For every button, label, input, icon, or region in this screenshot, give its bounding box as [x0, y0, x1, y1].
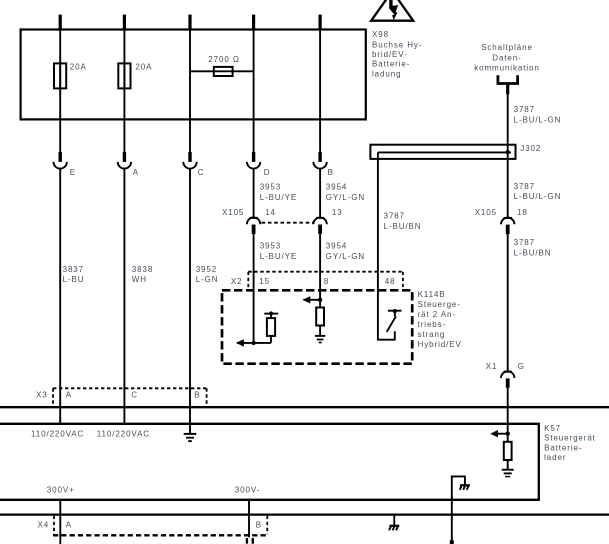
- X105 dashed connector link: [262, 222, 314, 224]
- svg-text:Batterie-: Batterie-: [544, 443, 582, 452]
- connector X98 pin A: [118, 152, 139, 177]
- svg-text:triebs-: triebs-: [418, 320, 447, 329]
- wire 3838 WH: [123, 169, 125, 424]
- wire 3787 L-BU/L-GN (upper right): [507, 94, 509, 145]
- wire D inside box: [253, 30, 255, 152]
- svg-text:8: 8: [324, 277, 329, 286]
- svg-text:110/220VAC: 110/220VAC: [31, 429, 84, 438]
- svg-text:3787: 3787: [514, 182, 535, 191]
- svg-text:Buchse Hy-: Buchse Hy-: [372, 40, 422, 49]
- warning triangle (high voltage, apex cut off at top): [371, 0, 413, 21]
- svg-text:L-GN: L-GN: [196, 275, 219, 284]
- terminal tick pin B top: [319, 15, 322, 30]
- wire 3952 L-GN: [189, 169, 191, 433]
- wire 300V+: [59, 500, 61, 544]
- svg-text:brid/EV-: brid/EV-: [372, 50, 408, 59]
- svg-text:X4: X4: [38, 521, 50, 530]
- svg-text:3954: 3954: [326, 242, 347, 251]
- svg-text:Hybrid/EV: Hybrid/EV: [418, 340, 462, 349]
- box X98 (charging socket): [21, 30, 366, 120]
- svg-text:B: B: [256, 521, 262, 530]
- ground (wire 3952 below bus): [184, 434, 197, 441]
- connector X98 pin D: [247, 152, 271, 177]
- label X98 Buchse Hybrid/EV-Batterieladung: [372, 30, 422, 78]
- svg-text:48: 48: [385, 277, 396, 286]
- bus line (top of charger area): [0, 406, 609, 408]
- svg-text:110/220VAC: 110/220VAC: [97, 429, 150, 438]
- ground (K114B pin 8): [315, 336, 325, 343]
- svg-text:K114B: K114B: [418, 290, 446, 299]
- svg-text:L-BU/YE: L-BU/YE: [260, 193, 297, 202]
- fuse 20A (wire E): [54, 63, 66, 88]
- terminal tick pin C top: [188, 15, 191, 30]
- svg-text:L-BU/BN: L-BU/BN: [514, 249, 552, 258]
- control unit K57 box: [0, 423, 539, 501]
- svg-text:A: A: [133, 168, 139, 177]
- connector X98 pin E: [54, 152, 77, 177]
- svg-text:rät 2 An-: rät 2 An-: [418, 310, 456, 319]
- fuse 20A (wire A): [118, 63, 130, 88]
- svg-text:18: 18: [517, 208, 528, 217]
- svg-text:3787: 3787: [514, 105, 535, 114]
- svg-text:X105: X105: [222, 208, 244, 217]
- connector X105 pin 13: [313, 208, 342, 234]
- svg-text:L-BU/YE: L-BU/YE: [260, 252, 297, 261]
- svg-text:B: B: [194, 391, 200, 400]
- terminal tick pin E top: [59, 15, 62, 30]
- wire 300V-: [248, 500, 250, 538]
- wire 3954 GY/L-GN (lower): [319, 234, 321, 308]
- svg-text:B: B: [328, 168, 334, 177]
- svg-text:20A: 20A: [135, 62, 152, 71]
- svg-text:J302: J302: [520, 144, 541, 153]
- svg-text:lader: lader: [544, 453, 566, 462]
- connector X1 pin G: [501, 371, 514, 388]
- wire 3787 L-BU/BN (X105 to X1): [507, 234, 509, 371]
- terminal tick pin A top: [123, 15, 126, 30]
- wire 3953 L-BU/YE (lower): [253, 234, 255, 343]
- svg-text:3953: 3953: [260, 183, 281, 192]
- svg-text:14: 14: [265, 208, 276, 217]
- svg-text:strang: strang: [418, 330, 446, 339]
- wire A inside box: [123, 30, 125, 152]
- K114B pin 8 branch: arrow, resistor R, ground: [303, 296, 325, 336]
- dashed box edge below X4: [53, 535, 267, 543]
- svg-text:L-BU/L-GN: L-BU/L-GN: [514, 192, 562, 201]
- svg-text:kommunikation: kommunikation: [474, 64, 540, 73]
- svg-text:3952: 3952: [196, 265, 217, 274]
- svg-text:C: C: [198, 168, 205, 177]
- svg-text:2700 Ω: 2700 Ω: [208, 55, 239, 64]
- svg-text:Steuerge-: Steuerge-: [418, 300, 461, 309]
- svg-text:X105: X105: [475, 208, 497, 217]
- svg-text:Schaltpläne: Schaltpläne: [481, 43, 533, 52]
- svg-text:G: G: [518, 362, 525, 371]
- svg-text:3837: 3837: [63, 265, 84, 274]
- wire 3787 L-BU/L-GN (J302 to X105 pin 18): [507, 145, 509, 218]
- wire B inside box: [319, 30, 321, 152]
- svg-text:15: 15: [259, 277, 270, 286]
- callout Schaltplaene Datenkommunikation: [474, 43, 540, 94]
- svg-text:GY/L-GN: GY/L-GN: [326, 252, 365, 261]
- svg-text:3953: 3953: [260, 242, 281, 251]
- connector X98 pin C: [183, 152, 204, 177]
- svg-text:Steuergerät: Steuergerät: [544, 434, 596, 443]
- svg-text:WH: WH: [132, 275, 147, 284]
- K57 internal: arrow, resistor, ground: [490, 430, 514, 477]
- wire C inside box: [189, 30, 191, 152]
- svg-text:Daten-: Daten-: [492, 54, 521, 63]
- svg-text:Batterie-: Batterie-: [372, 60, 410, 69]
- wire 3953 L-BU/YE (upper): [253, 169, 255, 218]
- svg-text:X1: X1: [486, 362, 498, 371]
- svg-text:20A: 20A: [70, 62, 87, 71]
- svg-text:300V+: 300V+: [47, 486, 75, 495]
- wire 3954 GY/L-GN (upper): [319, 169, 321, 218]
- svg-text:L-BU: L-BU: [63, 275, 85, 284]
- svg-text:3838: 3838: [132, 265, 153, 274]
- svg-text:ladung: ladung: [372, 70, 401, 79]
- connector X105 pin 14: [222, 208, 276, 234]
- control unit K114B (dashed box): [222, 290, 412, 363]
- label K57 Steuergeraet Batterielader: [544, 424, 596, 462]
- svg-text:13: 13: [332, 208, 343, 217]
- svg-text:D: D: [264, 168, 271, 177]
- wire 3787 L-BU/BN (J302 to X2 pin 48): [378, 152, 395, 339]
- connector X4 (dashed): [38, 516, 268, 535]
- label K114B Steuergeraet 2 Antriebsstrang Hybrid/EV: [418, 290, 462, 349]
- wire 3837 L-BU: [59, 169, 61, 424]
- svg-text:3787: 3787: [514, 238, 535, 247]
- wire X1 to K57: [507, 388, 509, 442]
- terminal tick pin D top: [252, 15, 255, 30]
- svg-text:GY/L-GN: GY/L-GN: [326, 193, 365, 202]
- connector X2 (dashed): [231, 272, 403, 289]
- splice pack J302: [370, 144, 541, 159]
- K114B pin 15 branch: wire, junction, resistor, internal rail: [236, 311, 278, 346]
- svg-text:X3: X3: [36, 391, 48, 400]
- K57 internal chassis ground (rake) and wire to bottom tick: [450, 476, 470, 544]
- resistor 2700 Ohm between C and D: [190, 55, 254, 76]
- connector X105 pin 18: [475, 208, 528, 234]
- svg-text:L-BU/BN: L-BU/BN: [384, 222, 422, 231]
- svg-text:E: E: [70, 168, 76, 177]
- svg-text:300V-: 300V-: [235, 486, 260, 495]
- wire E inside box: [59, 30, 61, 152]
- label X1 / pin G: [486, 362, 525, 371]
- svg-text:L-BU/L-GN: L-BU/L-GN: [514, 115, 562, 124]
- svg-text:K57: K57: [544, 424, 561, 433]
- connector X3 (dashed): [36, 388, 207, 406]
- svg-text:3787: 3787: [384, 212, 405, 221]
- svg-text:X2: X2: [231, 277, 243, 286]
- svg-text:X98: X98: [372, 30, 389, 39]
- svg-text:3954: 3954: [326, 183, 347, 192]
- connector X98 pin B: [313, 152, 333, 177]
- svg-text:A: A: [66, 521, 72, 530]
- svg-text:C: C: [131, 391, 138, 400]
- svg-text:A: A: [66, 391, 72, 400]
- chassis ground (rake) on bottom bus: [389, 515, 399, 531]
- K114B pin 48 switch: [387, 309, 402, 332]
- bus line (bottom): [0, 513, 609, 515]
